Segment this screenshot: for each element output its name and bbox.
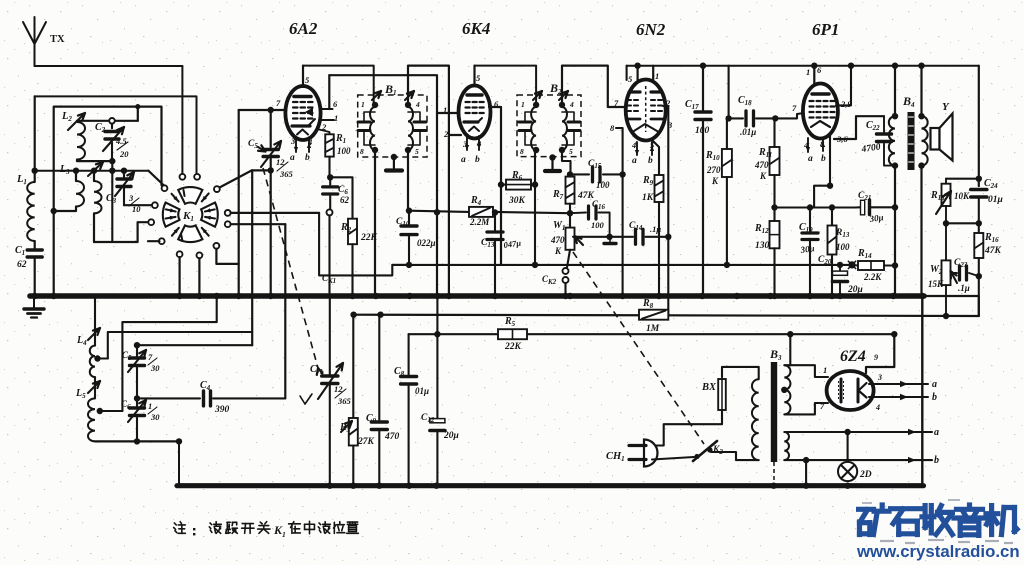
fuse BX: [722, 367, 759, 379]
B2 secondary coil: [562, 107, 567, 150]
capacitor C19 30u: [809, 208, 811, 232]
svg-text:1: 1: [361, 100, 365, 109]
variable capacitor C7b 12/365: [329, 298, 331, 374]
tube 6P1 envelope: [803, 84, 838, 139]
ground bus (main): [30, 293, 924, 299]
capacitor C20 20u electrolytic: [837, 262, 843, 268]
B4 secondary winding: [918, 113, 924, 119]
wire C6 node to R2: [330, 177, 352, 218]
wire K1 bottom contacts to ground bus: [179, 257, 181, 293]
wire B4 column to ground bus: [894, 166, 896, 293]
jack circles CK2: [563, 268, 569, 274]
svg-text:470: 470: [384, 432, 400, 442]
dashed gang line W1 to switch K2: [573, 252, 704, 444]
power rail y=334 left of B3 riser: [789, 334, 791, 365]
capacitor C13 047u: [494, 213, 496, 231]
B+ rail y=65.7: [627, 65, 979, 67]
tube 6Z4 internals: [840, 379, 843, 402]
svg-text:a: a: [808, 154, 813, 164]
switch K1 wiper arrows: [166, 217, 176, 219]
B4 core: [908, 112, 915, 170]
wire C18 to 6P1 grid: [775, 113, 804, 118]
bottom bus: [177, 483, 924, 488]
resistor R11 470K: [773, 118, 775, 147]
wire L5 bottom rail: [95, 440, 179, 442]
wire K1 lower-left contact stub: [148, 240, 160, 242]
wire R6 right to screen rail: [531, 184, 535, 186]
B3 LV secondary winding: [784, 432, 789, 460]
resistor R12 130: [773, 208, 775, 222]
wire rail-334 to 6Z4: [866, 334, 894, 373]
wire L2 top node: [77, 120, 138, 122]
AGC rail y=212 with R4: [409, 211, 468, 212]
wire B4 secondary top to right edge: [920, 66, 922, 117]
svg-text:b: b: [932, 392, 937, 403]
wire LV bottom to bottom bus: [805, 460, 807, 483]
B1 secondary cap: [414, 121, 426, 124]
B2 tuning arrows: [533, 91, 542, 100]
wire B1 primary bottom to ground bus: [374, 150, 376, 293]
svg-text:1: 1: [282, 530, 286, 539]
svg-text:390: 390: [214, 405, 230, 415]
tube 6N2 envelope: [626, 80, 666, 141]
B+ low rail y=334 with R5: [409, 333, 895, 335]
wire W1 tap rail: [573, 236, 610, 238]
tube 6K4 heater stubs: [466, 136, 468, 150]
svg-text:365: 365: [337, 396, 352, 406]
inductor L1: [34, 96, 36, 182]
B2 primary cap: [519, 121, 531, 124]
svg-text:a: a: [932, 379, 937, 390]
tube 6A2 envelope: [285, 86, 320, 140]
svg-text:2.2M: 2.2M: [469, 217, 490, 227]
svg-text:1: 1: [443, 105, 447, 115]
wire 6A2 pin2 to R1: [317, 129, 330, 134]
svg-text:30: 30: [150, 363, 160, 373]
inductor L3 secondary: [93, 171, 95, 181]
svg-text:4: 4: [415, 100, 420, 109]
svg-text:130: 130: [755, 241, 770, 251]
wire L4 feed from ground bus: [94, 298, 96, 346]
svg-text:01μ: 01μ: [415, 386, 429, 396]
resistor R1 100: [325, 134, 334, 156]
capacitor C23 .1u: [952, 272, 957, 274]
capacitor C1 62: [34, 241, 36, 248]
wire switch K2 to primary: [711, 452, 759, 460]
svg-text:22K: 22K: [504, 342, 522, 352]
wire R1 to C6 node: [328, 157, 330, 178]
svg-text:b: b: [821, 154, 826, 164]
tube 6N2 internals: [629, 90, 640, 93]
wire grid rail y=170.7: [35, 170, 149, 172]
svg-text:270: 270: [706, 165, 721, 175]
wire C18 rail: [728, 66, 730, 119]
inductor L3 primary: [75, 171, 77, 181]
capacitor C15 100: [570, 173, 589, 175]
B1 primary coil: [370, 107, 375, 150]
wire K1 right contact rail y=213: [231, 212, 319, 214]
B4 primary winding: [894, 66, 896, 117]
ground symbol: [33, 298, 35, 309]
resistor R3 27K: [352, 315, 354, 418]
tube 6A2 internals: [294, 95, 311, 99]
svg-text:470: 470: [550, 235, 565, 245]
coil tap L5: [97, 408, 103, 414]
svg-text:6N2: 6N2: [636, 20, 666, 39]
svg-text:4: 4: [875, 403, 880, 412]
right edge column: [978, 66, 980, 186]
cathode rail y=207.5: [775, 206, 856, 208]
wire K1 upper-right contact to C5 node: [220, 170, 252, 187]
pilot lamp 2D: [847, 432, 849, 462]
svg-text:100: 100: [836, 242, 850, 252]
wire K1 lower-right contact to grid riser: [216, 249, 238, 264]
svg-text:2D: 2D: [859, 470, 872, 480]
svg-text:30μ: 30μ: [799, 243, 815, 255]
trimmer capacitor C5 7/30: [136, 345, 138, 356]
coil tap L4: [94, 355, 100, 361]
svg-text:1: 1: [334, 113, 338, 123]
antenna TX: [34, 44, 36, 66]
svg-text:a: a: [632, 156, 637, 166]
svg-text:1: 1: [823, 365, 827, 375]
svg-text:2.2K: 2.2K: [863, 272, 882, 282]
svg-text:a: a: [934, 427, 939, 438]
ground bus junction dots: [32, 293, 38, 299]
B2 center tap chassis: [549, 154, 555, 160]
capacitor C21 30u electrolytic: [861, 200, 865, 215]
wire K1 right lower contact to padder column: [231, 223, 286, 225]
wire 6P1 cathode network: [814, 136, 830, 208]
resistor R10 270K: [726, 118, 728, 149]
resistor R14 2.2K: [852, 264, 858, 267]
switch K1 contact circles: [162, 185, 168, 191]
svg-text:100: 100: [596, 180, 610, 190]
svg-text:a: a: [461, 155, 466, 165]
tube 6A2 top cap pin 5: [302, 66, 304, 87]
svg-text:4: 4: [631, 140, 636, 150]
tube 6Z4 output a: [869, 383, 928, 385]
svg-text:www.crystalradio.cn: www.crystalradio.cn: [856, 542, 1020, 561]
speaker Y: [931, 128, 940, 150]
svg-text:6P1: 6P1: [812, 20, 839, 39]
svg-text:62: 62: [340, 195, 350, 205]
inductor L4: [90, 346, 95, 378]
wire 6A2 pin6 stub: [320, 108, 333, 110]
wire B4 secondary bottom: [920, 166, 922, 294]
trimmer capacitor C6 1/30: [136, 368, 138, 407]
svg-text:01μ: 01μ: [988, 195, 1003, 205]
potentiometer W1 470K: [566, 228, 575, 250]
resistor R5 22K: [498, 329, 527, 339]
chassis ground at volume tap: [609, 237, 611, 243]
tube 6N2 heater stubs: [636, 142, 638, 155]
svg-text:20μ: 20μ: [443, 431, 459, 441]
svg-text:8: 8: [520, 147, 524, 156]
B3 HV secondary winding: [784, 365, 790, 414]
wire R15 top rail: [946, 178, 979, 180]
wire oscillator riser x=252.2: [251, 170, 253, 345]
tube 6P1 heater stubs: [807, 138, 809, 152]
svg-text:TX: TX: [50, 34, 65, 45]
svg-text:365: 365: [279, 169, 294, 179]
svg-text:4: 4: [569, 100, 574, 109]
wire coupling box y=96: [35, 96, 197, 173]
wire coupling box y=106.6: [54, 107, 162, 294]
wire L3 primary bottom to feed column: [54, 207, 76, 212]
terminal circle C2 top: [109, 118, 115, 124]
B1 tuning arrows: [372, 91, 381, 100]
svg-text:15K: 15K: [928, 279, 944, 289]
wire 6N2 plate pins to B+ rail: [636, 66, 638, 82]
svg-text:9: 9: [874, 353, 878, 362]
capacitor C11 20u electrolytic: [436, 298, 438, 418]
resistor R13 100: [831, 208, 833, 226]
svg-text:4.5: 4.5: [115, 136, 127, 146]
resistor R4 2.2M: [469, 207, 493, 217]
svg-text:2: 2: [443, 129, 449, 139]
capacitor C3 3/10 trimmer: [123, 171, 125, 177]
svg-text:100: 100: [591, 220, 605, 230]
wire C2 column down: [111, 161, 113, 242]
svg-text:47K: 47K: [984, 246, 1002, 256]
wire C15 rail: [567, 171, 573, 177]
svg-text:b: b: [305, 153, 310, 163]
wire B1 secondary top rail to 6K4 pin2: [408, 66, 449, 294]
wire 6P1 screen to B+ rail: [836, 66, 851, 106]
wire antenna to K1 top contact: [35, 65, 183, 67]
svg-text:1K: 1K: [642, 193, 654, 203]
mains plug CH1: [644, 440, 658, 467]
wire HV secondary to 6Z4 plates: [784, 365, 828, 377]
jack circle CK1: [329, 196, 331, 210]
wire 6A2 pin1 stub: [321, 119, 334, 121]
watermark ghost marks: [880, 540, 894, 542]
B1 primary cap: [358, 121, 370, 124]
svg-text:1: 1: [655, 71, 659, 81]
variable capacitor C7a 12/365 (osc section C5 column): [270, 110, 272, 147]
resistor R8 1M: [639, 310, 668, 320]
B1 secondary coil: [408, 107, 413, 150]
wire 6N2 cathode to R9: [652, 140, 659, 175]
resistor R15 10K: [945, 179, 947, 184]
capacitor C18 .01u: [744, 111, 747, 126]
tube 6A2 heater stubs: [295, 139, 297, 152]
wire C2 feed elbow: [137, 107, 139, 121]
band switch K1 rotor wedges: [178, 187, 202, 204]
capacitor C14 .01u: [610, 236, 633, 238]
resistor R6 30K: [501, 184, 506, 186]
svg-text:100: 100: [695, 126, 710, 136]
watermark chinese characters crystal radio: [859, 507, 874, 512]
svg-text:BX: BX: [701, 382, 717, 393]
svg-text:20: 20: [119, 149, 129, 159]
capacitor C16 100: [570, 212, 586, 215]
wire 6K4 pin6 to R6 column: [489, 107, 501, 265]
screen rail y=264.9: [392, 264, 852, 266]
svg-text:b: b: [475, 155, 480, 165]
svg-text:.1μ: .1μ: [958, 283, 970, 293]
tube 6K4 top cap pin5: [473, 66, 475, 86]
wire L2 bottom to C2: [77, 160, 109, 162]
svg-text:30: 30: [150, 412, 160, 422]
svg-text:1: 1: [521, 100, 525, 109]
svg-text:100: 100: [337, 146, 351, 156]
B3 primary winding: [752, 379, 759, 460]
svg-text:.01μ: .01μ: [740, 127, 756, 137]
capacitor C24 01u: [971, 188, 987, 192]
svg-text:5: 5: [569, 147, 573, 156]
IF transformer B2 dashed box: [517, 95, 581, 157]
svg-text:30K: 30K: [508, 196, 526, 206]
capacitor C9 470: [378, 315, 380, 420]
feedback rail y=316: [354, 315, 979, 316]
svg-text:1M: 1M: [646, 324, 660, 334]
wire L5 tap staircase to ground: [122, 298, 216, 411]
wire 6P1 plate to output transformer: [834, 116, 884, 139]
capacitor C4 390 padder: [137, 397, 200, 399]
wire fuse to plug: [655, 410, 722, 446]
capacitor C10 022u: [401, 224, 417, 227]
svg-text:K: K: [554, 246, 562, 256]
svg-text:b: b: [648, 156, 653, 166]
wire 6N2 pin2 grid column: [663, 106, 668, 315]
wire L4 tap staircase to K1: [108, 332, 252, 359]
wire heater winding outputs a b: [784, 431, 932, 433]
wire mid rail y=223.3: [946, 222, 979, 224]
IF transformer B1 dashed box: [358, 95, 427, 157]
wire 6A2 grid pin7: [239, 109, 287, 111]
svg-text:27K: 27K: [357, 437, 375, 447]
svg-text:8: 8: [360, 147, 364, 156]
wire 6K4 plate rail to B2: [475, 66, 537, 105]
svg-text:3: 3: [877, 373, 882, 382]
B1 center tap chassis: [391, 154, 397, 160]
resistor R7 47K: [569, 174, 571, 176]
wire ground-bus tail to feedback node: [924, 296, 979, 316]
trimmer rail y=345.2: [137, 344, 252, 346]
wire B1 secondary bottom to AGC node: [407, 150, 409, 211]
svg-text:30μ: 30μ: [868, 212, 884, 224]
svg-text:20μ: 20μ: [847, 285, 863, 295]
wire plug to switch K2: [652, 457, 694, 460]
svg-text:1: 1: [148, 401, 152, 411]
svg-text:a: a: [290, 153, 295, 163]
svg-text:470: 470: [754, 160, 769, 170]
wire C10 bottom staircase to K1 rail: [319, 213, 409, 276]
capacitor C6 62: [329, 177, 331, 185]
note text: band switch K1 at MW position: [174, 523, 176, 525]
tube 6P1 internals: [812, 92, 829, 95]
wire K1 left lower contact to L3 secondary: [94, 222, 149, 242]
svg-text:6Z4: 6Z4: [840, 348, 866, 365]
bottom bus junction dots: [327, 483, 333, 489]
capacitor C2 4.5/20 trimmer: [105, 130, 119, 133]
wire B2 secondary bottom to C15 rail: [562, 150, 571, 174]
junction cross at R14 left: [848, 261, 855, 268]
wire 6A2 pin6 rail to 6K4 pin1: [329, 75, 437, 293]
capacitor C8 01u: [408, 334, 410, 374]
resistor R2 22K: [348, 219, 357, 245]
svg-text:62: 62: [17, 260, 27, 270]
wire bottom-bus right riser to ground bus: [921, 298, 923, 486]
B2 secondary cap: [568, 121, 580, 124]
svg-text:3: 3: [128, 193, 134, 203]
svg-text:K: K: [759, 171, 767, 181]
svg-text:K: K: [711, 176, 719, 186]
svg-text:022μ: 022μ: [417, 238, 436, 248]
capacitor C22 4700: [883, 116, 885, 132]
B3 core: [771, 362, 777, 462]
svg-text:5: 5: [415, 147, 419, 156]
svg-text:10K: 10K: [954, 191, 970, 201]
B2 primary coil: [531, 107, 536, 150]
wire C3 to K1 left contact: [124, 204, 152, 206]
tube 6Z4 envelope: [827, 371, 874, 410]
svg-text:1: 1: [806, 67, 810, 77]
svg-text:b: b: [934, 455, 939, 466]
wire bottom-bus left riser: [178, 441, 180, 486]
wire 6N2 pin8 column: [616, 128, 623, 293]
wire B2 secondary top rail to 6N2 grid: [562, 66, 627, 107]
dashed gang line tuning: [263, 168, 318, 368]
capacitor C17 100: [702, 66, 704, 110]
inductor L5: [94, 377, 96, 398]
tube 6Z4 output b: [869, 396, 928, 398]
wire grid riser x=238.7: [238, 110, 240, 294]
tube 6P1 top pins 1 6: [813, 66, 815, 84]
tube 6K4 envelope: [459, 86, 491, 139]
tube 6K4 internals: [467, 93, 482, 96]
power switch K2: [694, 454, 699, 459]
inductor L2: [77, 122, 85, 160]
filter rail C21: [855, 206, 860, 208]
wire 6A2 plate rail to B1: [303, 66, 374, 105]
resistor R16 47K: [978, 223, 980, 233]
svg-text:6A2: 6A2: [289, 19, 318, 38]
svg-text:6K4: 6K4: [462, 19, 490, 38]
resistor R9 1K: [655, 175, 664, 202]
potentiometer W2 15K: [945, 223, 947, 260]
